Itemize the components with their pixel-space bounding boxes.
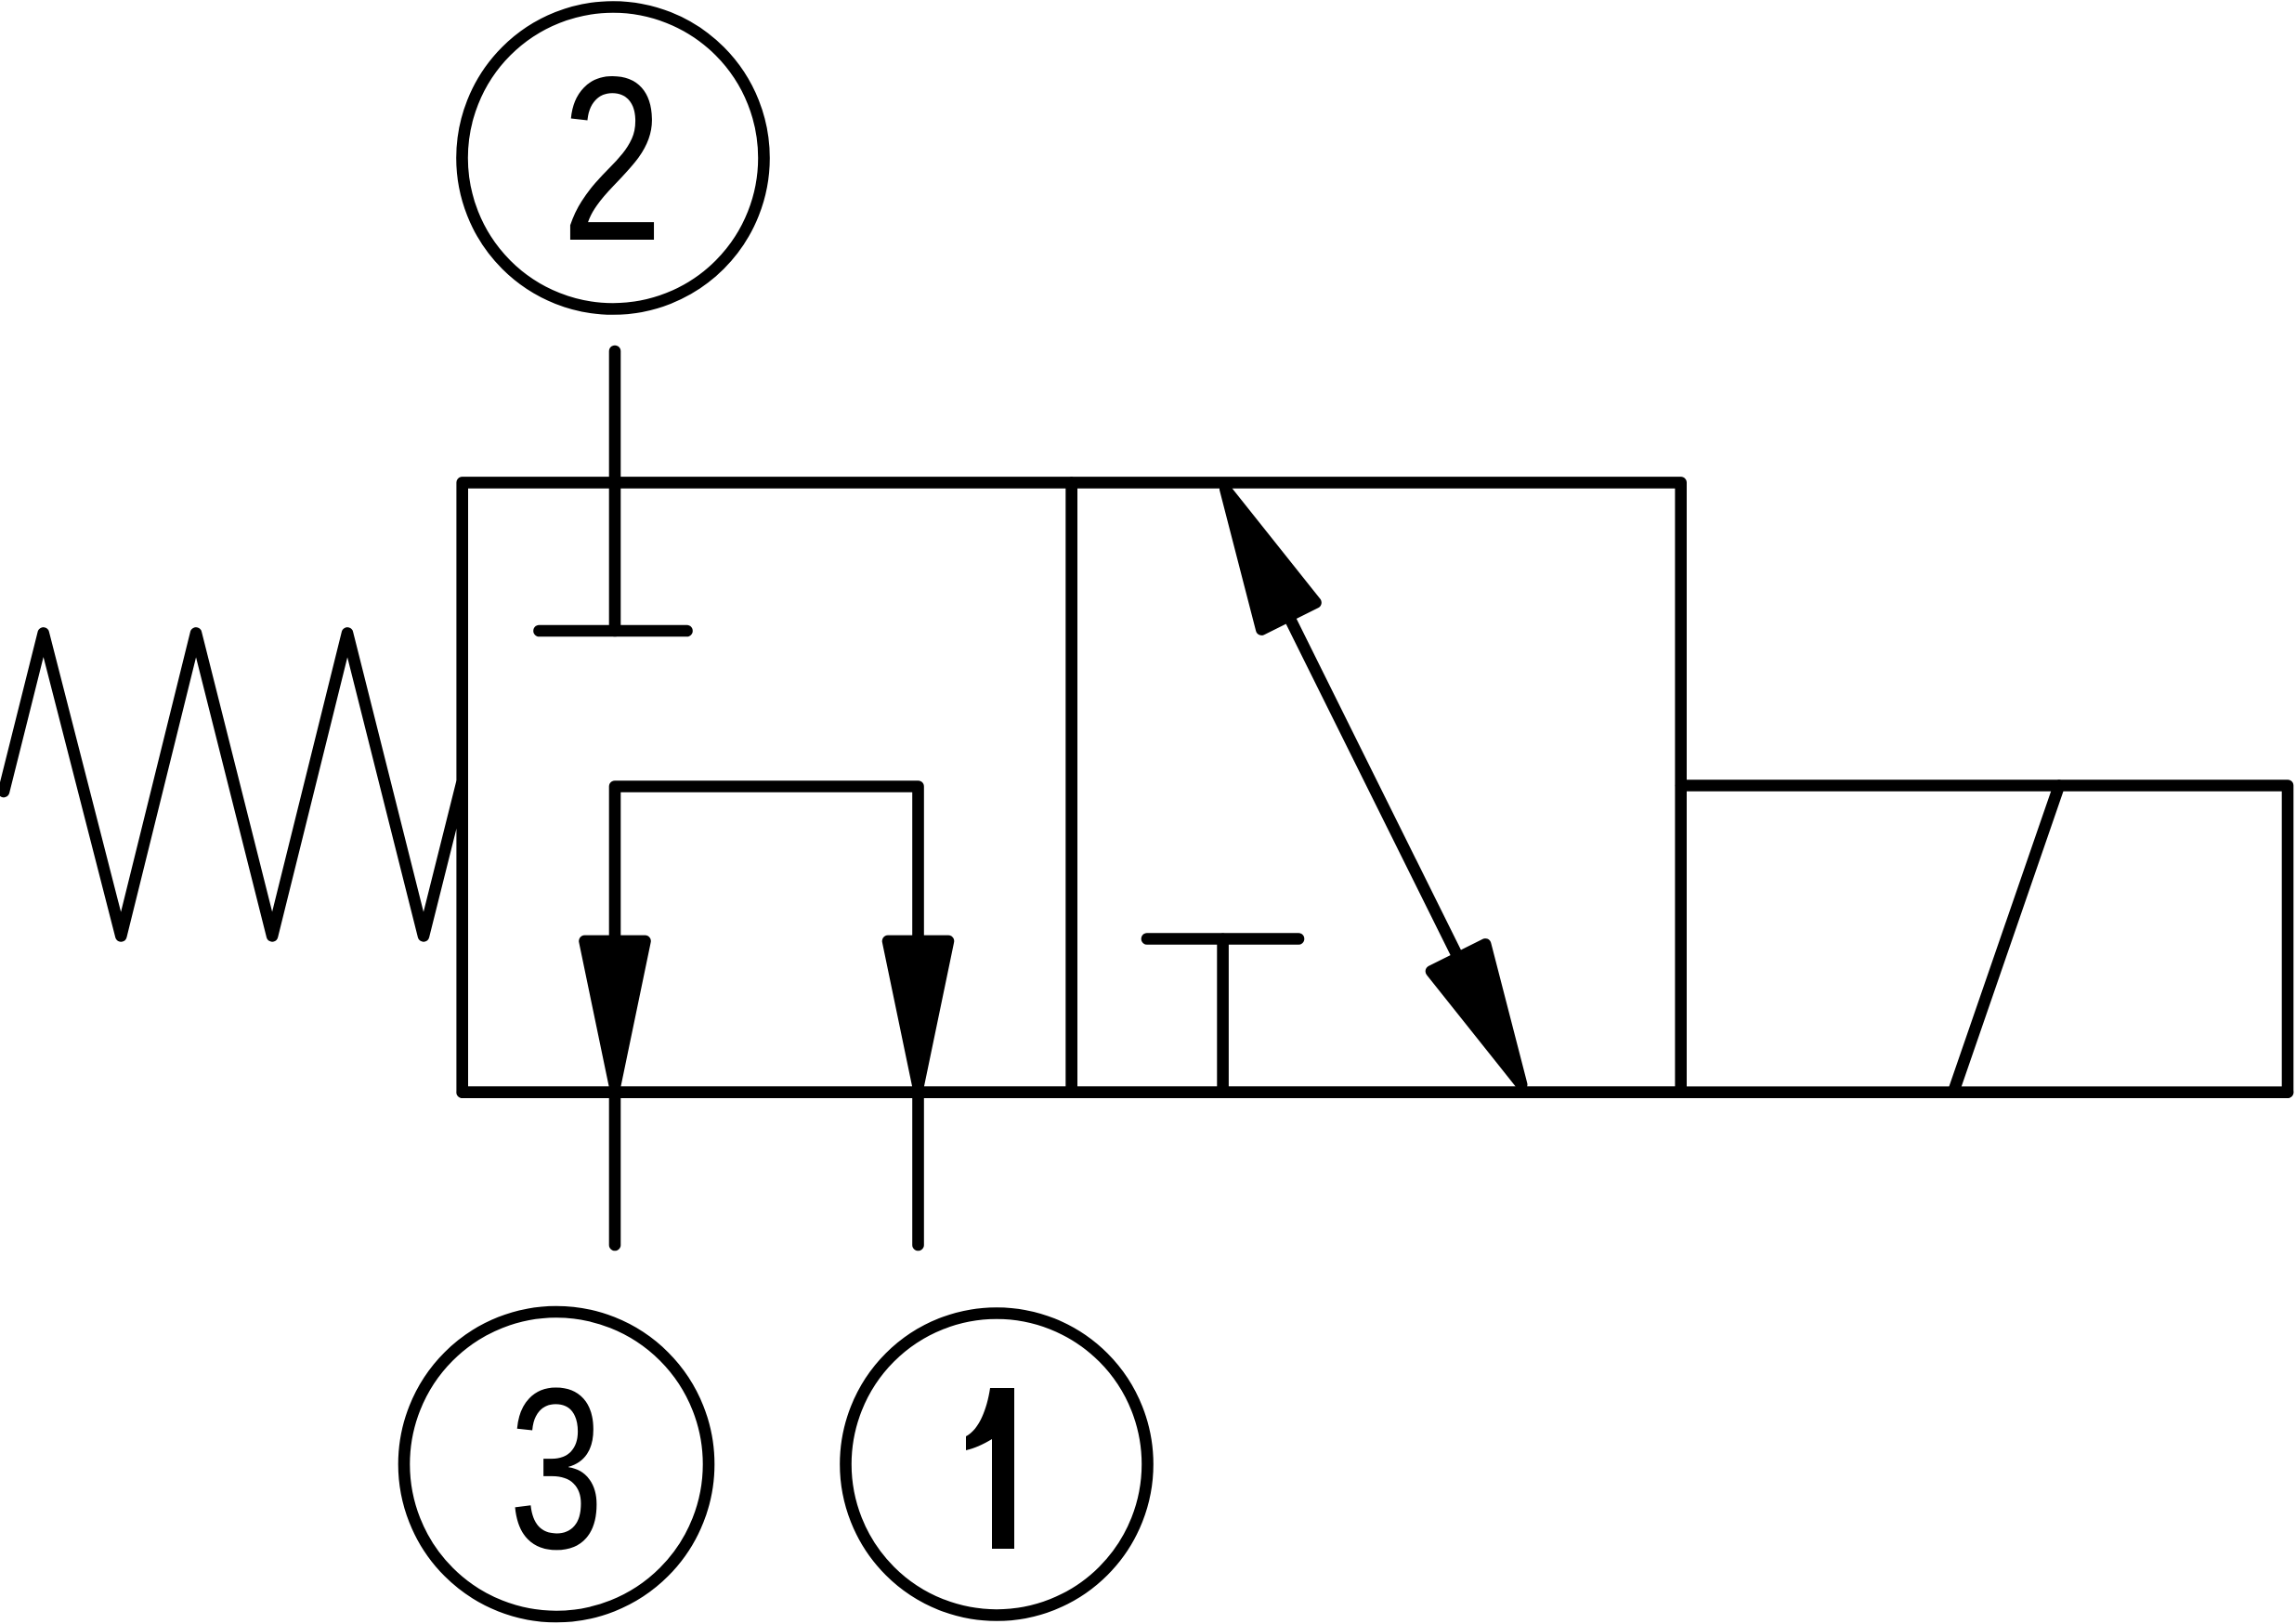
flow arrow lower head [1431, 944, 1521, 1084]
flow arrow shaft (right box) [1288, 616, 1458, 958]
blocked port T (right box) [1147, 939, 1298, 1093]
solenoid bottom / valve bottom common line [463, 1086, 2288, 1098]
valve body right box (position b) [1072, 482, 1681, 1092]
wire to circle 1 [912, 1093, 924, 1245]
blocked port 2 T-bar (left box) [540, 625, 687, 637]
wire port 2 to valve [609, 351, 621, 631]
wire to circle 3 [609, 1093, 621, 1245]
solenoid box [1681, 786, 2288, 1093]
arrowhead to port 3 [585, 941, 646, 1087]
arrowhead to port 1 [888, 941, 948, 1087]
flow arrow upper head [1225, 490, 1315, 630]
port circle 1 [846, 1314, 1148, 1616]
solenoid diagonal [1953, 786, 2059, 1093]
spring [4, 634, 463, 936]
valve body left box (position a) [463, 482, 1072, 1092]
svg-text:3: 3 [509, 1341, 605, 1597]
svg-text:2: 2 [561, 29, 663, 290]
port circle 2 [463, 7, 764, 309]
bridge path 3-1 (left box) [615, 787, 919, 1093]
port circle 3 [404, 1312, 709, 1617]
